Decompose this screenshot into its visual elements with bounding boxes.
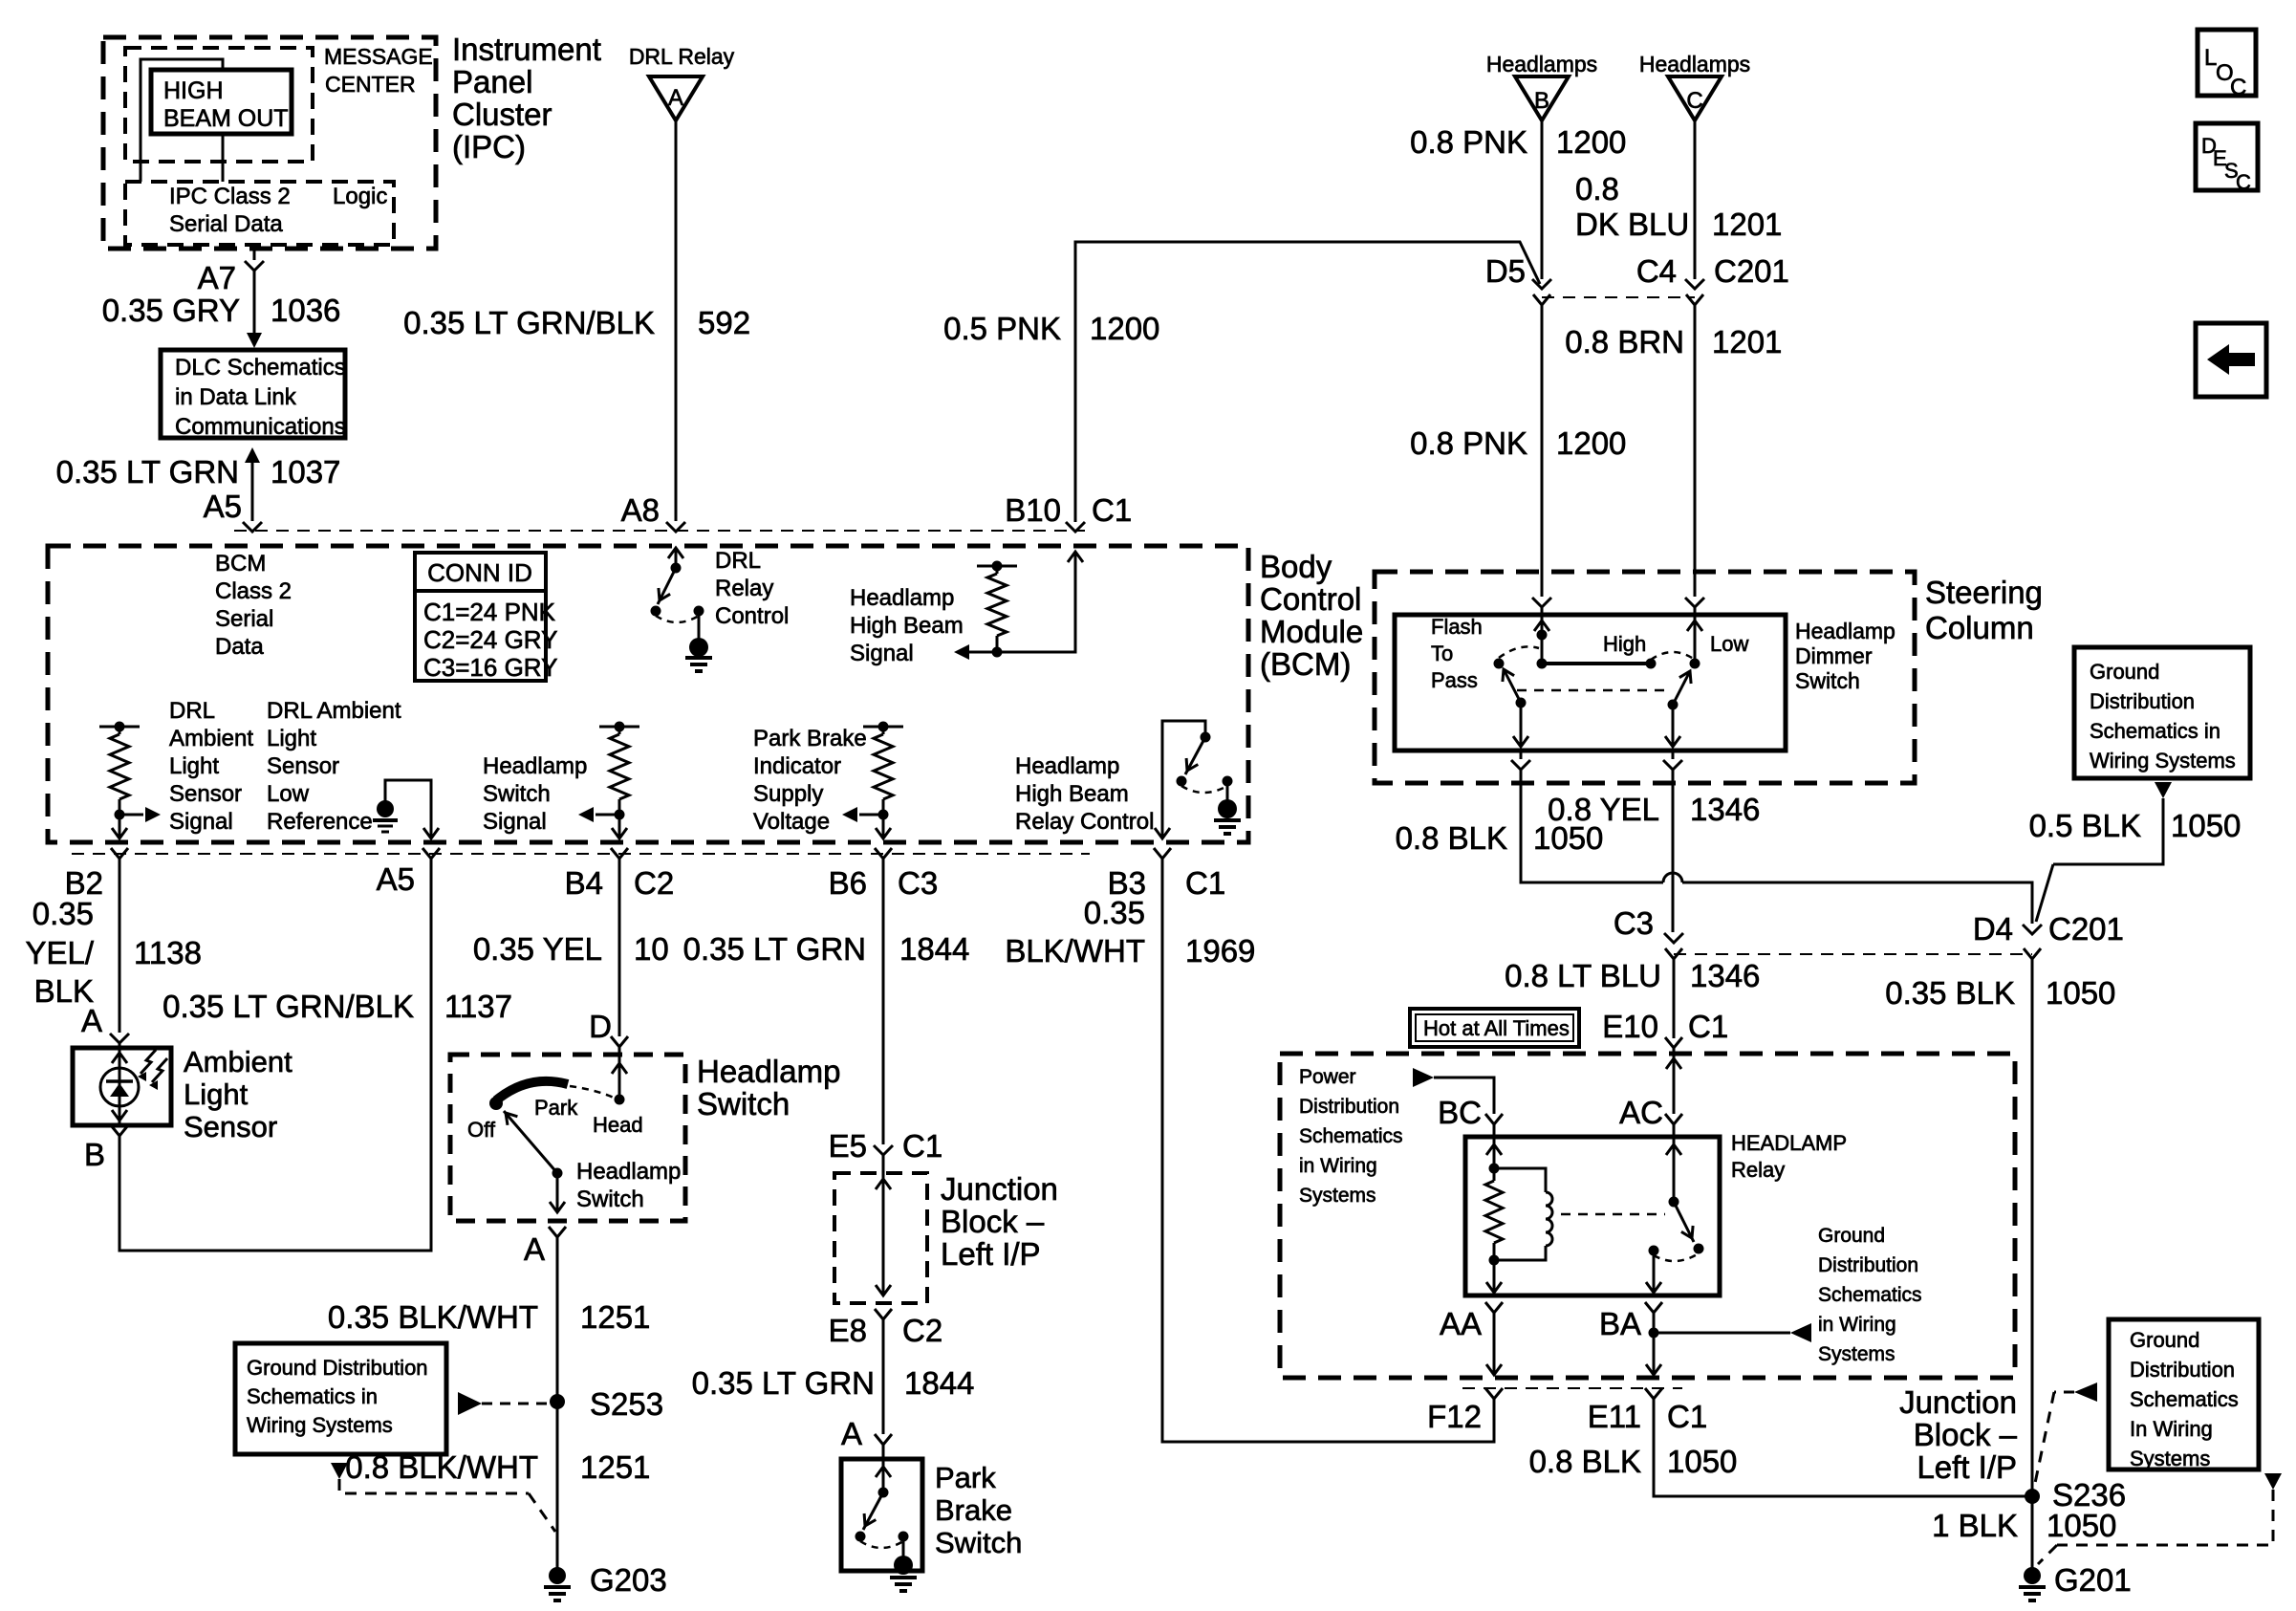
svg-text:1200: 1200 (1090, 311, 1159, 346)
relay resistor (1485, 1168, 1503, 1266)
svg-text:Low: Low (1710, 632, 1748, 656)
svg-text:Module: Module (1260, 614, 1363, 649)
connector at dimmer output left (1511, 751, 1530, 770)
svg-text:in Data Link: in Data Link (175, 384, 297, 410)
Hot at All Times box (1410, 1009, 1579, 1047)
ambient light sensor (73, 1045, 292, 1143)
svg-text:1251: 1251 (580, 1449, 650, 1485)
svg-text:S253: S253 (590, 1386, 663, 1422)
svg-text:D4: D4 (1973, 911, 2013, 947)
svg-text:1050: 1050 (2046, 975, 2115, 1011)
dimmer switch Flash To Pass contact (1431, 615, 1539, 692)
relay outputs (1486, 1251, 1661, 1293)
svg-text:0.35 BLK/WHT: 0.35 BLK/WHT (328, 1299, 538, 1335)
Ground Distribution Schematics In Wiring Systems box (bottom right) (2109, 1319, 2259, 1470)
Headlamps connector triangle C (1639, 52, 1750, 120)
svg-text:A: A (668, 85, 683, 111)
svg-text:B: B (1534, 88, 1549, 114)
wire 10 0.35 YEL (473, 859, 669, 1036)
svg-text:Relay Control: Relay Control (1015, 809, 1154, 835)
connector AA (1440, 1302, 1503, 1341)
LOC reference box (2198, 30, 2256, 100)
DRL Ambient Light Sensor Signal resistor (BCM) (99, 698, 253, 838)
connector C201 at C4 (C wire) (1636, 253, 1789, 319)
svg-text:Ground Distribution: Ground Distribution (247, 1356, 428, 1380)
svg-text:BC: BC (1438, 1095, 1482, 1130)
svg-text:Control: Control (1260, 581, 1361, 617)
wire 592 0.35 LT GRN/BLK from DRL relay (403, 120, 750, 521)
svg-text:Switch: Switch (1795, 668, 1860, 693)
Headlamp High Beam Relay Control switch (BCM) (1015, 721, 1241, 838)
svg-text:Schematics: Schematics (2130, 1387, 2239, 1411)
svg-text:High Beam: High Beam (1015, 781, 1129, 807)
connector E5 C1 (829, 1128, 943, 1164)
svg-text:Class 2: Class 2 (215, 578, 292, 604)
Ground Distribution Schematics in Wiring Systems box (left) (235, 1343, 446, 1454)
connector B4 C2 (565, 848, 675, 901)
svg-text:Headlamps: Headlamps (1639, 52, 1750, 76)
connector C at dimmer switch (1685, 598, 1704, 607)
dimmer switch right dashed arc (1651, 652, 1695, 660)
splice S236 (2025, 1477, 2126, 1513)
connector A5 (BCM low reference) (377, 848, 440, 897)
DESC reference box (2196, 123, 2258, 194)
svg-text:C1: C1 (1092, 492, 1132, 528)
relay actuation dashed link (1561, 1213, 1665, 1216)
svg-text:BA: BA (1599, 1306, 1641, 1341)
svg-text:Power: Power (1299, 1066, 1356, 1088)
wire from sensor B to BCM A5 (119, 859, 431, 1251)
svg-text:A8: A8 (621, 492, 660, 528)
svg-text:0.35 LT GRN: 0.35 LT GRN (683, 931, 866, 967)
ground G203 (544, 1562, 667, 1600)
svg-text:Distribution: Distribution (1299, 1096, 1399, 1118)
svg-text:A: A (524, 1231, 545, 1267)
Junction Block - Left I/P dashed box (park brake) (834, 1171, 1058, 1303)
svg-text:Systems: Systems (2130, 1447, 2210, 1470)
svg-text:E10: E10 (1602, 1009, 1658, 1044)
svg-text:C1: C1 (1667, 1399, 1707, 1434)
svg-text:IPC Class 2: IPC Class 2 (169, 184, 291, 209)
svg-text:Logic: Logic (333, 184, 387, 209)
connector A below headlamp switch (524, 1227, 566, 1267)
Park Brake Switch (841, 1445, 1022, 1591)
svg-text:0.35 GRY: 0.35 GRY (102, 293, 240, 328)
svg-text:DLC Schematics: DLC Schematics (175, 355, 346, 381)
reference arrow below ground distribution box (left) (331, 1463, 555, 1532)
svg-text:0.35 LT GRN/BLK: 0.35 LT GRN/BLK (162, 989, 414, 1024)
svg-text:1200: 1200 (1556, 124, 1626, 160)
svg-text:Light: Light (169, 753, 219, 779)
svg-text:Serial: Serial (215, 606, 273, 632)
svg-text:C: C (2230, 75, 2246, 100)
svg-text:1346: 1346 (1690, 958, 1760, 993)
F12/E11 connector dashed line (1462, 1387, 1682, 1389)
svg-text:Serial Data: Serial Data (169, 211, 283, 237)
svg-text:C2=24 GRY: C2=24 GRY (423, 625, 557, 654)
wire from HIGH BEAM OUT top to IPC logic (141, 59, 223, 182)
svg-text:A5: A5 (377, 861, 415, 897)
connector AC (1619, 1095, 1682, 1130)
svg-text:1037: 1037 (271, 454, 340, 490)
wire 1037 0.35 LT GRN (56, 447, 341, 521)
svg-text:C201: C201 (2048, 911, 2124, 947)
dimmer switch right arm (1665, 671, 1691, 747)
svg-text:High Beam: High Beam (850, 613, 964, 639)
svg-text:DRL Relay: DRL Relay (629, 44, 735, 69)
reference arrow below ground distribution box (bottom right) (2038, 1473, 2282, 1564)
svg-text:Ground: Ground (1818, 1225, 1885, 1247)
svg-text:Systems: Systems (1299, 1185, 1376, 1207)
svg-text:BLK/WHT: BLK/WHT (1005, 933, 1145, 969)
connector BA (1599, 1302, 1662, 1341)
wire E10 to AC (1666, 1048, 1681, 1114)
connector B at ambient light sensor (84, 1125, 128, 1172)
wire 1346 0.8 LT BLU (1505, 958, 1760, 1038)
svg-text:Communications: Communications (175, 414, 346, 440)
svg-text:Park: Park (935, 1461, 996, 1494)
svg-text:Ambient: Ambient (184, 1045, 292, 1078)
svg-text:Switch: Switch (697, 1086, 790, 1121)
connector F12 (1427, 1388, 1503, 1434)
DRL Relay Control switch (BCM) (651, 548, 790, 671)
svg-text:C: C (1686, 88, 1702, 114)
wire 1138 0.35 YEL/BLK (25, 859, 202, 1033)
svg-text:Headlamp: Headlamp (483, 753, 587, 779)
svg-text:Systems: Systems (1818, 1343, 1895, 1365)
wire 1050 0.8 BLK from E11 to S236 (1529, 1399, 2032, 1496)
svg-text:Column: Column (1925, 610, 2034, 645)
svg-text:In Wiring: In Wiring (2130, 1417, 2213, 1441)
svg-text:0.8 BLK: 0.8 BLK (1396, 820, 1507, 856)
Headlamp Dimmer Switch box (1395, 615, 1895, 751)
connector E8 C2 (829, 1309, 943, 1348)
svg-text:1844: 1844 (904, 1365, 974, 1401)
connector D at headlamp switch (589, 1009, 628, 1047)
svg-text:Headlamp: Headlamp (1795, 619, 1895, 643)
svg-text:C4: C4 (1636, 253, 1677, 289)
svg-text:Reference: Reference (267, 809, 373, 835)
svg-text:Park: Park (534, 1096, 578, 1120)
svg-text:1036: 1036 (271, 293, 340, 328)
svg-text:0.8 PNK: 0.8 PNK (1410, 425, 1527, 461)
wire 1201 0.8 BRN headlamp C lower (1565, 319, 1782, 597)
svg-text:0.8 BRN: 0.8 BRN (1565, 324, 1684, 359)
svg-text:To: To (1431, 642, 1453, 665)
connector A at park brake switch (841, 1416, 892, 1451)
wire 1844 0.35 LT GRN upper (683, 859, 970, 1144)
svg-text:Ground: Ground (2090, 660, 2159, 684)
svg-text:Block –: Block – (1914, 1417, 2018, 1452)
Steering Column dashed box (1375, 572, 2043, 783)
svg-text:Junction: Junction (1899, 1384, 2017, 1420)
HEADLAMP Relay box (1465, 1131, 1847, 1295)
svg-text:C1: C1 (1185, 865, 1225, 901)
connector C3 (C201) (1614, 905, 1683, 959)
IPC-to-BCM connector dashed line (234, 530, 1085, 532)
svg-text:Headlamp: Headlamp (697, 1054, 840, 1089)
svg-text:MESSAGE: MESSAGE (324, 44, 433, 69)
connector A8 (621, 492, 685, 532)
connector at dimmer output right (1663, 751, 1682, 770)
svg-text:Schematics in: Schematics in (2090, 719, 2220, 743)
svg-text:1969: 1969 (1185, 933, 1255, 969)
connector BC (1438, 1095, 1503, 1130)
connector E10 C1 (1602, 1009, 1728, 1048)
svg-text:HIGH: HIGH (163, 77, 224, 104)
svg-text:Head: Head (593, 1113, 643, 1137)
svg-text:10: 10 (634, 931, 669, 967)
BCM bottom connector dashed line (72, 853, 1090, 855)
svg-text:Indicator: Indicator (753, 753, 841, 779)
svg-text:Dimmer: Dimmer (1795, 643, 1873, 668)
svg-text:Low: Low (267, 781, 310, 807)
Power Distribution dashed box (junction block) (1280, 1054, 2015, 1378)
reference arrow to S236 (2034, 1382, 2097, 1488)
Junction Block - Left I/P label (right) (1899, 1384, 2018, 1485)
svg-text:AC: AC (1619, 1095, 1663, 1130)
svg-text:A: A (81, 1003, 102, 1038)
svg-text:HEADLAMP: HEADLAMP (1731, 1131, 1847, 1155)
svg-text:0.35 LT GRN: 0.35 LT GRN (692, 1365, 875, 1401)
svg-text:C201: C201 (1714, 253, 1789, 289)
connector C201 at D5 (B wire) (1485, 253, 1551, 319)
BCM Class 2 Serial Data label (215, 551, 292, 660)
svg-text:BCM: BCM (215, 551, 266, 577)
headlamp switch wiper arm (504, 1111, 681, 1212)
svg-text:Schematics in: Schematics in (247, 1384, 378, 1408)
svg-text:Light: Light (267, 726, 316, 751)
svg-text:1138: 1138 (134, 935, 202, 970)
BA ground reference branch (1646, 1313, 1811, 1375)
svg-text:Headlamps: Headlamps (1486, 52, 1597, 76)
connector A at ambient light sensor (81, 1003, 129, 1048)
svg-text:Data: Data (215, 634, 264, 660)
svg-text:Relay: Relay (715, 576, 773, 601)
power feed reference arrow BC (1413, 1068, 1494, 1114)
svg-text:DRL: DRL (169, 698, 215, 724)
svg-text:0.35 YEL: 0.35 YEL (473, 931, 602, 967)
svg-text:High: High (1603, 632, 1646, 656)
svg-text:Switch: Switch (483, 781, 551, 807)
svg-text:AA: AA (1440, 1306, 1482, 1341)
svg-text:F12: F12 (1427, 1399, 1482, 1434)
svg-text:0.5 BLK: 0.5 BLK (2029, 808, 2141, 843)
svg-text:CENTER: CENTER (325, 72, 416, 97)
svg-text:C3: C3 (898, 865, 938, 901)
svg-text:YEL/: YEL/ (25, 935, 94, 970)
svg-text:in Wiring: in Wiring (1818, 1314, 1896, 1336)
svg-text:1050: 1050 (1667, 1444, 1737, 1479)
Headlamp Switch Signal resistor (BCM) (483, 722, 639, 839)
svg-text:Sensor: Sensor (267, 753, 339, 779)
svg-text:Sensor: Sensor (184, 1110, 277, 1143)
wire 0.5 PNK 1200 from BCM B10 to D5 (943, 242, 1540, 522)
wire 1844 0.35 LT GRN lower (692, 1319, 975, 1434)
relay coil (1494, 1168, 1552, 1260)
svg-text:Distribution: Distribution (2130, 1358, 2235, 1382)
svg-text:Control: Control (715, 603, 789, 629)
svg-text:BEAM OUT: BEAM OUT (163, 105, 289, 132)
svg-text:Headlamp: Headlamp (1015, 753, 1119, 779)
svg-text:G203: G203 (590, 1562, 667, 1598)
junction block internal wire (876, 1155, 891, 1295)
svg-text:Left I/P: Left I/P (941, 1236, 1041, 1272)
svg-text:Signal: Signal (169, 809, 233, 835)
headlamp switch Head contact (593, 1047, 643, 1137)
svg-text:1050: 1050 (1533, 820, 1603, 856)
Ground Distribution Schematics in Wiring Systems label (relay) (1818, 1225, 1922, 1365)
svg-text:1 BLK: 1 BLK (1932, 1508, 2018, 1543)
svg-text:Cluster: Cluster (452, 97, 552, 132)
svg-text:1200: 1200 (1556, 425, 1626, 461)
DRL Ambient Light Sensor Low Reference label and ground (BCM) (267, 698, 439, 838)
svg-text:Relay: Relay (1731, 1158, 1785, 1182)
svg-text:0.35 LT GRN: 0.35 LT GRN (56, 454, 239, 490)
back arrow box (2196, 323, 2266, 397)
relay switch (1649, 1124, 1704, 1261)
svg-text:0.8 LT BLU: 0.8 LT BLU (1505, 958, 1661, 993)
svg-text:Instrument: Instrument (452, 32, 601, 67)
DLC Schematics in Data Link Communications box (161, 350, 346, 440)
dimmer switch left arm (1503, 669, 1528, 747)
wire 1036 0.35 GRY (102, 271, 341, 348)
svg-text:Off: Off (467, 1118, 496, 1142)
svg-text:1050: 1050 (2047, 1508, 2116, 1543)
svg-text:(BCM): (BCM) (1260, 646, 1351, 682)
svg-text:1201: 1201 (1712, 207, 1782, 242)
svg-text:Switch: Switch (935, 1526, 1022, 1559)
ground G201 (2019, 1562, 2132, 1600)
svg-text:0.8 BLK: 0.8 BLK (1529, 1444, 1641, 1479)
svg-text:A7: A7 (198, 260, 236, 295)
svg-text:Wiring Systems: Wiring Systems (247, 1413, 393, 1437)
svg-text:Body: Body (1260, 549, 1332, 584)
svg-text:Headlamp: Headlamp (576, 1159, 681, 1185)
Headlamps connector triangle B (1486, 52, 1597, 120)
C201 lower connector dashed line (1674, 953, 2032, 955)
svg-text:DRL: DRL (715, 548, 761, 574)
svg-text:E5: E5 (829, 1128, 867, 1164)
svg-text:0.35 LT GRN/BLK: 0.35 LT GRN/BLK (403, 305, 655, 340)
svg-text:Ground: Ground (2130, 1328, 2199, 1352)
svg-text:B6: B6 (829, 865, 867, 901)
svg-text:(IPC): (IPC) (452, 129, 526, 164)
svg-text:B: B (84, 1137, 105, 1172)
svg-text:1137: 1137 (444, 989, 512, 1024)
svg-text:Flash: Flash (1431, 615, 1483, 639)
Power Distribution Schematics in Wiring Systems label (1299, 1066, 1403, 1207)
svg-text:D5: D5 (1485, 253, 1526, 289)
HIGH BEAM OUT indicator box (151, 70, 292, 134)
Park Brake Indicator Supply Voltage resistor (BCM) (753, 722, 903, 839)
svg-text:592: 592 (698, 305, 750, 340)
reference arrow to S253 (458, 1392, 549, 1415)
svg-text:B4: B4 (565, 865, 603, 901)
svg-text:0.35: 0.35 (1084, 895, 1145, 930)
splice S253 (550, 1386, 663, 1422)
svg-text:Left I/P: Left I/P (1917, 1449, 2017, 1485)
svg-text:1346: 1346 (1690, 792, 1760, 827)
svg-text:Hot at All Times: Hot at All Times (1423, 1016, 1570, 1040)
svg-text:1844: 1844 (899, 931, 969, 967)
relay coil branch input (1486, 1124, 1502, 1174)
svg-text:C3: C3 (1614, 905, 1654, 941)
svg-text:Switch: Switch (576, 1186, 644, 1212)
svg-text:Headlamp: Headlamp (850, 585, 954, 611)
svg-text:C3=16 GRY: C3=16 GRY (423, 653, 557, 682)
C201 connector dashed line (1542, 296, 1695, 298)
connector E11 C1 (1588, 1388, 1707, 1434)
svg-text:Distribution: Distribution (1818, 1254, 1918, 1276)
svg-text:Brake: Brake (935, 1493, 1012, 1527)
svg-text:C2: C2 (902, 1313, 942, 1348)
svg-text:Voltage: Voltage (753, 809, 830, 835)
wire 1251 0.8 BLK/WHT (345, 1402, 650, 1576)
svg-text:Schematics: Schematics (1818, 1284, 1922, 1306)
dimmer switch mechanical link dashed (1517, 689, 1667, 692)
svg-text:DRL Ambient: DRL Ambient (267, 698, 401, 724)
wire 1050 0.5 BLK from ground distribution reference (2029, 782, 2242, 922)
svg-text:0.35: 0.35 (32, 896, 94, 931)
svg-text:Distribution: Distribution (2090, 689, 2195, 713)
svg-text:0.35 BLK: 0.35 BLK (1885, 975, 2015, 1011)
connector A5 (IPC side) (204, 489, 262, 532)
svg-text:0.8 BLK/WHT: 0.8 BLK/WHT (345, 1449, 538, 1485)
IPC Class 2 Serial Data logic dashed box (125, 182, 394, 245)
svg-text:0.8 PNK: 0.8 PNK (1410, 124, 1527, 160)
svg-text:E11: E11 (1588, 1399, 1641, 1434)
svg-text:D: D (589, 1009, 612, 1044)
svg-text:1050: 1050 (2171, 808, 2241, 843)
connector B6 C3 (829, 848, 939, 901)
Headlamp Switch dashed box (450, 1054, 840, 1221)
MESSAGE CENTER dashed box (125, 44, 433, 162)
svg-text:Signal: Signal (850, 641, 914, 666)
svg-text:B10: B10 (1005, 492, 1061, 528)
svg-text:G201: G201 (2054, 1562, 2132, 1598)
connector B at dimmer switch (1532, 598, 1551, 607)
svg-text:0.8: 0.8 (1575, 171, 1619, 207)
AA wire to F12 (1486, 1313, 1502, 1375)
svg-text:1251: 1251 (580, 1299, 650, 1335)
wire 1200 0.8 PNK headlamp B lower (1410, 319, 1626, 597)
svg-text:E8: E8 (829, 1313, 867, 1348)
svg-text:Panel: Panel (452, 64, 532, 99)
svg-text:Wiring Systems: Wiring Systems (2090, 749, 2236, 773)
headlamp switch Off/Park rotor (467, 1081, 616, 1142)
svg-text:Sensor: Sensor (169, 781, 242, 807)
wire 1137 0.35 LT GRN/BLK label (162, 989, 512, 1024)
connector B3 C1 (1108, 848, 1226, 901)
svg-text:A: A (841, 1416, 862, 1451)
Headlamp High Beam Signal resistor (BCM) (850, 552, 1083, 666)
wire 1050 0.8 BLK from dimmer left output (1396, 770, 2032, 924)
svg-text:Steering: Steering (1925, 575, 2043, 610)
dimmer switch B feed and High contact (1534, 607, 1657, 669)
connector D4 (C201) (1973, 911, 2124, 959)
Body Control Module (BCM) dashed box (48, 546, 1363, 842)
svg-text:1201: 1201 (1712, 324, 1782, 359)
svg-text:Light: Light (184, 1078, 249, 1111)
svg-text:C1=24 PNK: C1=24 PNK (423, 598, 556, 626)
connector B2 (65, 848, 128, 901)
wire from HIGH BEAM OUT bottom (222, 134, 225, 182)
svg-text:Ambient: Ambient (169, 726, 253, 751)
svg-text:A5: A5 (204, 489, 242, 524)
svg-text:DK BLU: DK BLU (1575, 207, 1689, 242)
wire 1251 0.35 BLK/WHT (328, 1237, 651, 1402)
